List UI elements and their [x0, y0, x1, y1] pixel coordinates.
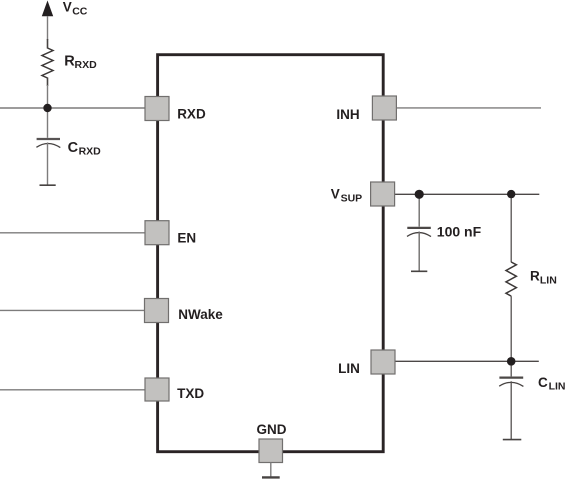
svg-text:LIN: LIN [549, 380, 565, 392]
svg-text:LIN: LIN [540, 274, 557, 286]
svg-text:NWake: NWake [178, 307, 223, 322]
pin RXD [145, 97, 169, 121]
wire node B to 100nF capacitor [418, 194, 420, 226]
node D junction dot on LIN net [507, 357, 516, 366]
svg-text:V: V [331, 187, 340, 202]
wire RXD net [0, 107, 145, 109]
label VCC [63, 0, 88, 17]
svg-text:CC: CC [72, 5, 88, 17]
pin TXD [145, 378, 169, 401]
svg-text:C: C [68, 140, 79, 156]
label pin GND [257, 422, 287, 437]
wire R_RXD to node A [47, 78, 49, 109]
svg-text:GND: GND [257, 422, 287, 437]
label pin RXD [177, 107, 206, 122]
label pin INH [336, 107, 359, 122]
pin EN [145, 221, 169, 245]
capacitor 100nF [407, 228, 431, 237]
label R_LIN [530, 269, 557, 287]
wire GND pin to ground [270, 463, 272, 477]
ground C_LIN [503, 439, 522, 441]
label R_RXD [64, 54, 97, 71]
svg-text:EN: EN [177, 231, 196, 246]
resistor R_LIN [506, 262, 516, 296]
wire C_RXD to ground [47, 143, 49, 186]
svg-text:R: R [530, 269, 540, 284]
label pin VSUP [331, 187, 362, 205]
svg-text:100 nF: 100 nF [437, 223, 482, 239]
svg-text:TXD: TXD [177, 386, 204, 401]
wire node A to C_RXD [47, 108, 49, 138]
svg-text:V: V [63, 0, 72, 15]
label pin TXD [177, 386, 204, 401]
wire TXD net [0, 389, 145, 391]
label pin NWake [178, 307, 223, 322]
svg-text:LIN: LIN [338, 361, 360, 376]
wire EN net [0, 232, 145, 234]
capacitor C_RXD [36, 139, 60, 148]
pin NWake [145, 299, 169, 323]
label pin EN [177, 231, 196, 246]
svg-text:C: C [538, 375, 548, 390]
svg-text:RXD: RXD [177, 107, 206, 122]
ground 100nF [411, 270, 427, 272]
node C junction dot on VSUP net [507, 190, 515, 198]
ground GND [262, 476, 280, 478]
svg-text:INH: INH [336, 107, 359, 122]
power symbol VCC [42, 1, 53, 17]
resistor R_RXD [42, 48, 53, 78]
IC body U1 [158, 55, 384, 452]
label 100 nF [437, 223, 482, 239]
label C_RXD [68, 140, 102, 157]
ground C_RXD [40, 184, 56, 186]
svg-text:SUP: SUP [341, 193, 363, 205]
pin INH [372, 96, 396, 120]
pin VSUP [371, 182, 395, 206]
wire node C to R_LIN [510, 194, 512, 262]
wire R_LIN to node D [510, 296, 512, 361]
wire NWake net [0, 309, 145, 311]
svg-text:RXD: RXD [75, 59, 98, 71]
pin LIN [371, 350, 395, 374]
wire VSUP net [395, 193, 540, 195]
wire 100nF to ground [418, 232, 420, 272]
wire C_LIN to ground [510, 381, 512, 439]
svg-text:RXD: RXD [79, 145, 102, 157]
label pin LIN [338, 361, 360, 376]
capacitor C_LIN [499, 378, 523, 387]
wire node D to C_LIN [510, 361, 512, 376]
node A junction dot [43, 104, 51, 112]
wire INH net [396, 107, 541, 109]
pin GND [259, 439, 283, 463]
wire LIN net [395, 360, 539, 362]
node B junction dot on VSUP net [415, 190, 424, 199]
label C_LIN [538, 375, 565, 393]
wire VCC to R_RXD [47, 16, 49, 49]
